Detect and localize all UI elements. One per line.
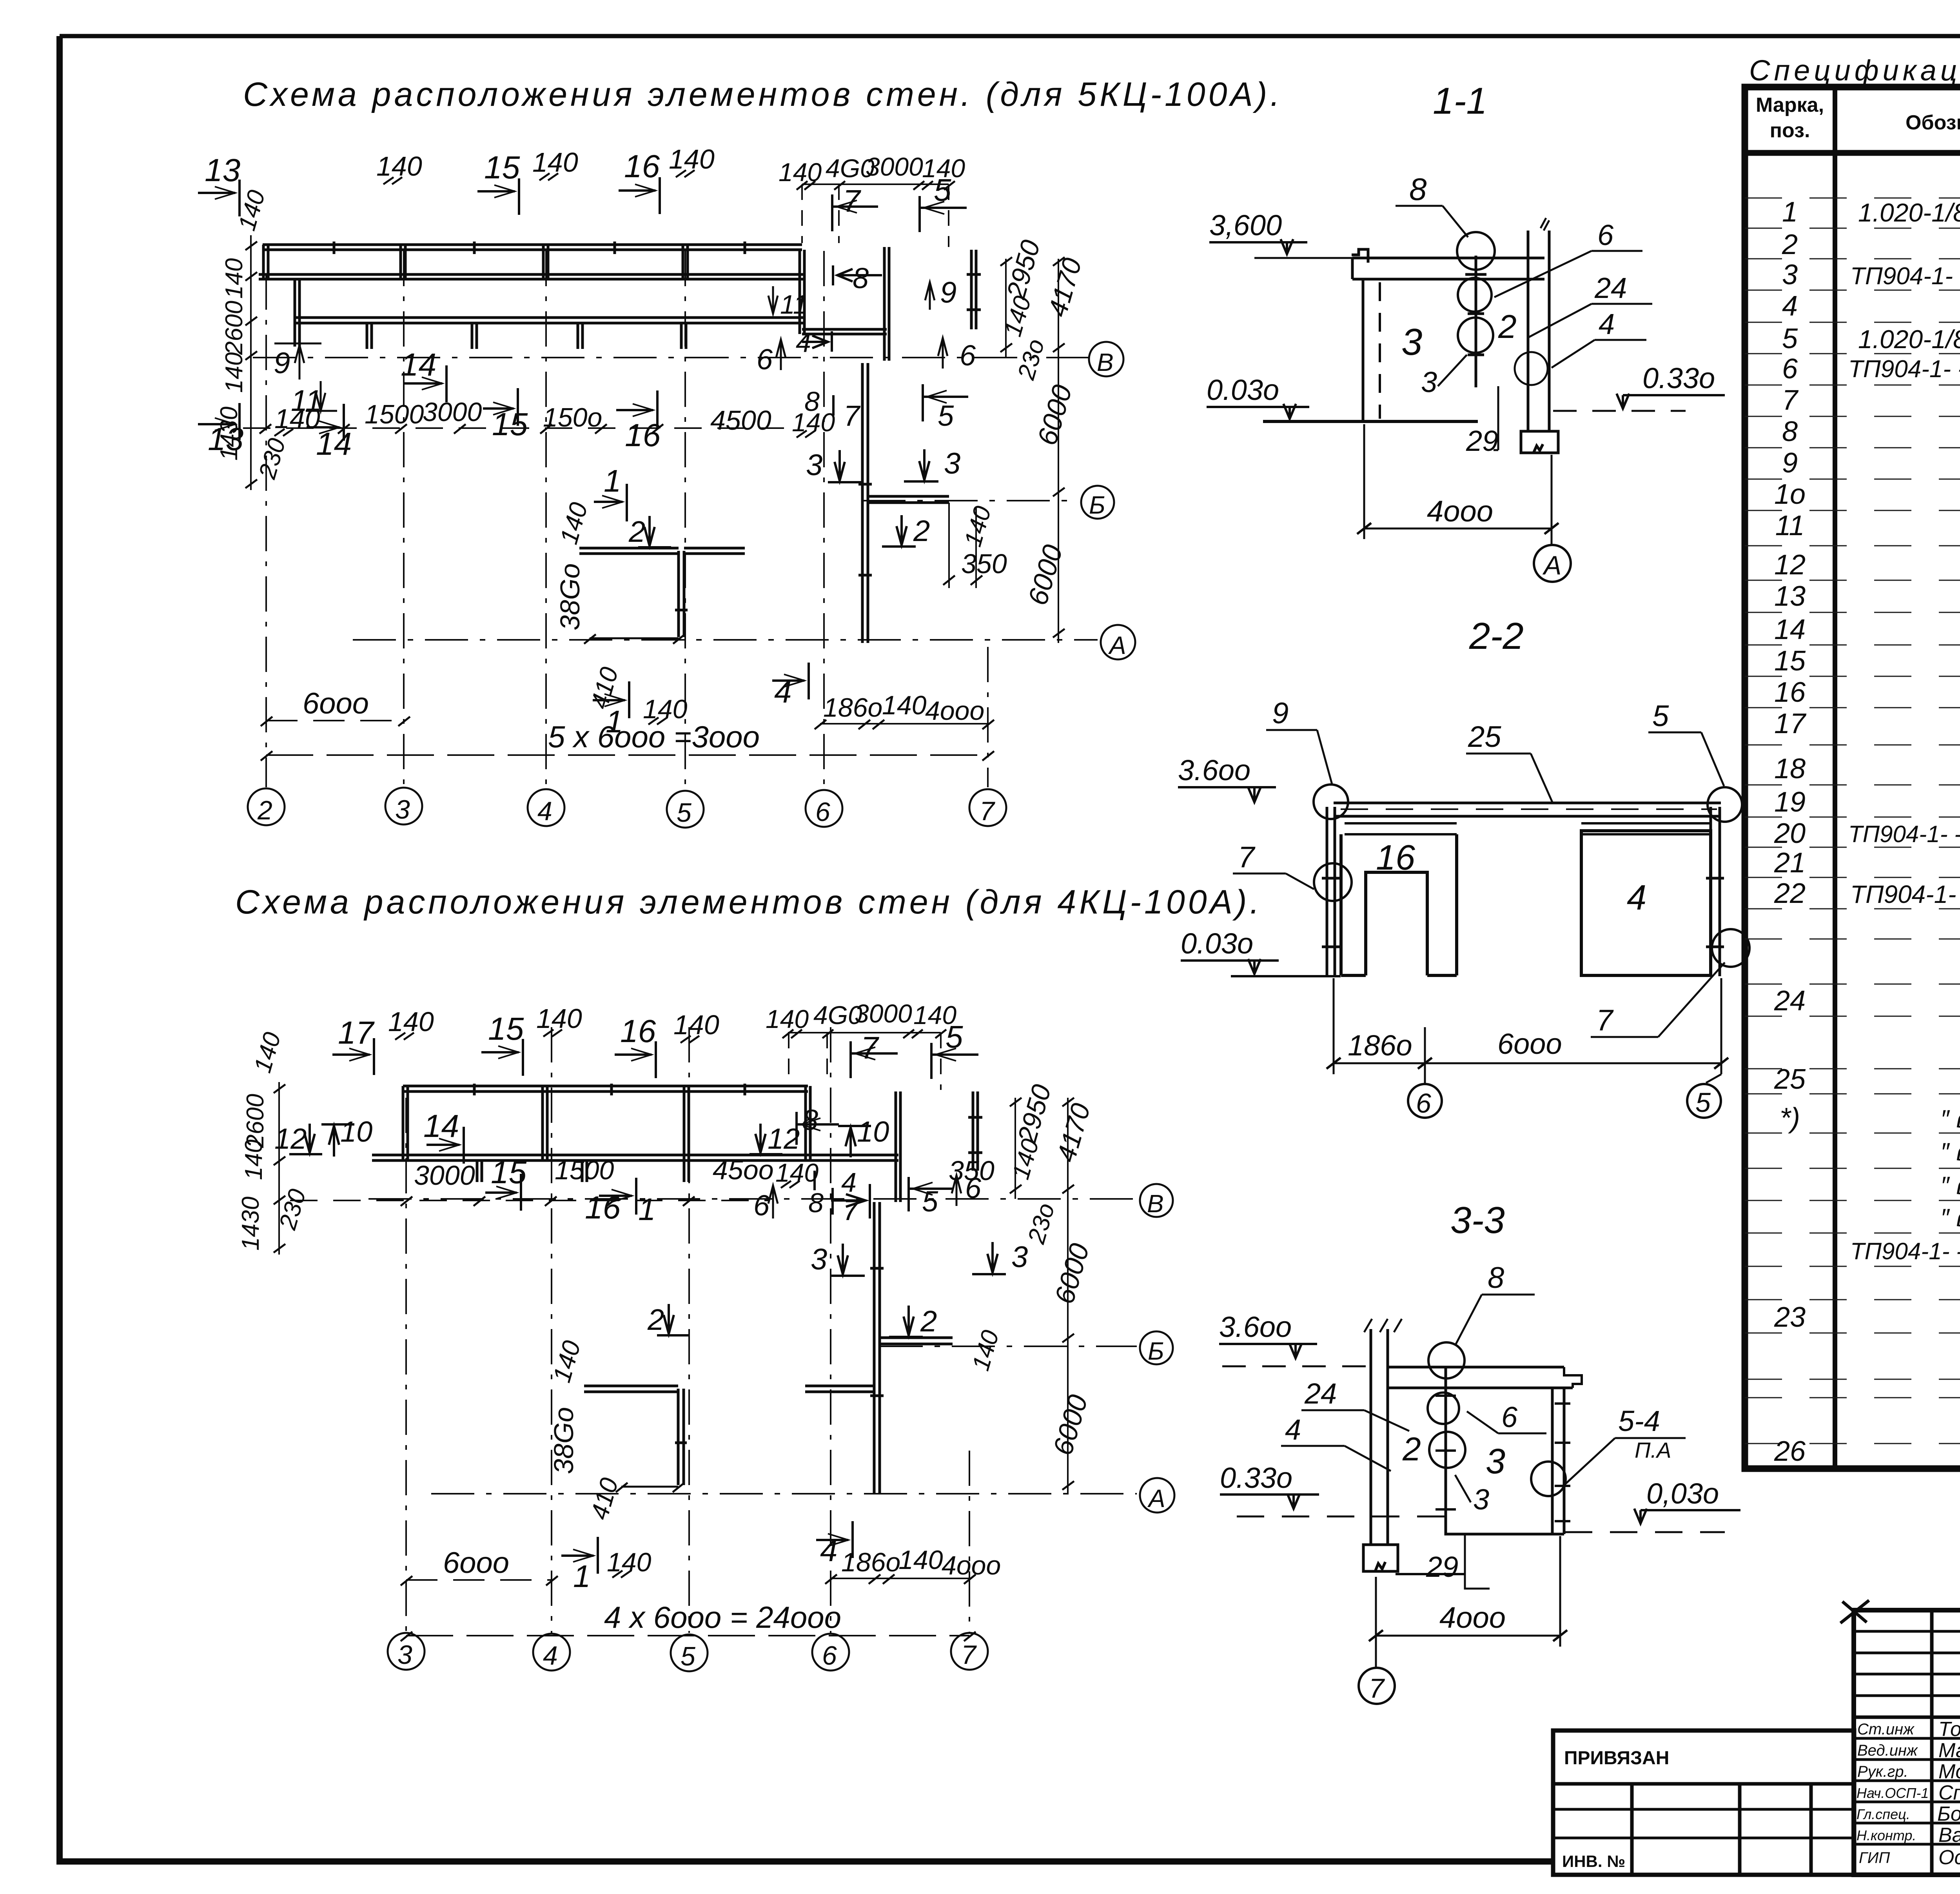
- svg-text:8: 8: [853, 262, 869, 294]
- svg-text:6: 6: [1416, 1088, 1431, 1119]
- svg-text:8: 8: [1488, 1261, 1504, 1295]
- mid dim row plan2: [290, 1155, 953, 1227]
- svg-text:9: 9: [1272, 697, 1289, 730]
- svg-text:2: 2: [257, 795, 272, 825]
- wall piece at axis Б: [868, 496, 949, 503]
- svg-text:6ооо: 6ооо: [443, 1546, 509, 1580]
- svg-text:17: 17: [338, 1015, 375, 1051]
- svg-text:10: 10: [340, 1115, 372, 1148]
- svg-text:ТП904-1- -КЖИ- 407: ТП904-1- -КЖИ- 407: [1848, 356, 1960, 383]
- svg-text:2: 2: [1782, 229, 1798, 260]
- svg-text:24: 24: [1774, 985, 1806, 1017]
- svg-text:29: 29: [1466, 425, 1498, 457]
- svg-text:3: 3: [1473, 1483, 1489, 1516]
- svg-text:ИНВ. №: ИНВ. №: [1562, 1852, 1625, 1870]
- svg-text:4500: 4500: [710, 405, 771, 436]
- svg-text:14: 14: [401, 347, 436, 383]
- svg-text:5: 5: [677, 798, 691, 828]
- foundation: [1521, 431, 1558, 453]
- svg-text:15: 15: [488, 1011, 524, 1047]
- svg-text:5 х 6ооо =3ооо: 5 х 6ооо =3ооо: [548, 719, 760, 754]
- grid circle 7 plan2: [951, 1633, 988, 1670]
- svg-text:1: 1: [638, 1192, 656, 1227]
- axis circle B: [1089, 342, 1123, 376]
- grid circle 7: [969, 789, 1006, 826]
- svg-text:3000: 3000: [855, 999, 912, 1028]
- svg-text:17: 17: [1774, 708, 1807, 739]
- svg-text:3: 3: [806, 449, 822, 482]
- svg-text:Нач.ОСП-1: Нач.ОСП-1: [1857, 1785, 1929, 1801]
- svg-text:2: 2: [920, 1305, 937, 1338]
- svg-text:7: 7: [961, 1640, 977, 1670]
- right dim verticals plan2: [1014, 1098, 1016, 1199]
- svg-text:10: 10: [857, 1115, 889, 1148]
- svg-text:7: 7: [1369, 1673, 1385, 1703]
- svg-text:4: 4: [537, 796, 552, 826]
- bubble circles: [1457, 232, 1495, 270]
- svg-text:4: 4: [1782, 291, 1798, 322]
- svg-text:Н.контр.: Н.контр.: [1857, 1827, 1916, 1843]
- svg-text:Ващенко: Ващенко: [1938, 1824, 1960, 1847]
- svg-text:3: 3: [1421, 366, 1437, 398]
- svg-text:140: 140: [898, 1545, 943, 1575]
- svg-text:5: 5: [1652, 699, 1669, 733]
- svg-text:16: 16: [1774, 677, 1806, 708]
- svg-text:8: 8: [804, 386, 820, 417]
- svg-text:ТП904-1- - КЖИ- 413: ТП904-1- - КЖИ- 413: [1850, 263, 1960, 290]
- svg-text:4ооо: 4ооо: [1439, 1601, 1506, 1634]
- lower wall with stubs: [295, 279, 804, 349]
- svg-text:″ вып. 6-1: ″ вып. 6-1: [1940, 1105, 1960, 1133]
- svg-text:45оо: 45оо: [713, 1155, 774, 1185]
- svg-text:350: 350: [949, 1155, 995, 1186]
- interior L-wall plan2: [584, 1386, 874, 1485]
- svg-text:5-4: 5-4: [1618, 1405, 1660, 1437]
- top wall band plan2: [372, 1084, 814, 1160]
- svg-text:3000: 3000: [414, 1160, 475, 1191]
- wall panel left: [1362, 279, 1365, 421]
- svg-text:140: 140: [240, 1140, 267, 1180]
- svg-text:П.А: П.А: [1635, 1438, 1671, 1462]
- svg-text:6: 6: [960, 339, 976, 372]
- svg-text:Боярченко: Боярченко: [1937, 1803, 1960, 1825]
- svg-text:Обозначение: Обозначение: [1906, 111, 1960, 134]
- column right: [1527, 231, 1530, 431]
- grid axis dash-dot verticals: [266, 251, 988, 787]
- svg-text:Б: Б: [1089, 491, 1105, 519]
- svg-text:Осташ_в:: Осташ_в:: [1938, 1846, 1960, 1869]
- roof slab: [1352, 258, 1544, 279]
- svg-text:″ вып. 7-1: ″ вып. 7-1: [1940, 1204, 1960, 1232]
- svg-text:2: 2: [1498, 308, 1517, 345]
- svg-text:3.6оо: 3.6оо: [1219, 1311, 1292, 1343]
- row separators dashed: [1745, 198, 1960, 1444]
- svg-text:140: 140: [388, 1006, 434, 1037]
- svg-text:24: 24: [1304, 1377, 1337, 1410]
- dim 410 line: [590, 637, 679, 639]
- right step walls plan2: [806, 1086, 900, 1202]
- svg-text:4: 4: [820, 1533, 838, 1568]
- svg-text:140: 140: [221, 352, 248, 393]
- grid circle 5 plan2: [671, 1634, 708, 1671]
- left dim vertical plan2: [278, 1082, 280, 1255]
- svg-text:12: 12: [274, 1122, 307, 1155]
- axis circle 7: [1359, 1668, 1395, 1704]
- svg-text:Моргунов: Моргунов: [1938, 1760, 1960, 1783]
- svg-text:8: 8: [1409, 172, 1427, 207]
- svg-text:140: 140: [882, 690, 927, 720]
- joint circles: [1428, 1342, 1465, 1378]
- svg-text:6ооо: 6ооо: [303, 687, 369, 720]
- svg-text:3: 3: [1782, 259, 1798, 291]
- svg-text:Вед.инж: Вед.инж: [1857, 1742, 1918, 1759]
- svg-text:Схема расположения элементов: Схема расположения элементов стен (для 4…: [235, 883, 1262, 921]
- svg-text:1430: 1430: [237, 1197, 264, 1251]
- svg-text:11: 11: [780, 290, 808, 320]
- svg-text:6ооо: 6ооо: [1497, 1028, 1562, 1060]
- svg-text:4ооо: 4ооо: [1427, 495, 1493, 528]
- svg-text:1-1: 1-1: [1433, 80, 1487, 122]
- svg-text:4ооо: 4ооо: [942, 1551, 1001, 1580]
- svg-text:29: 29: [1426, 1551, 1458, 1583]
- slab: [1388, 1367, 1573, 1388]
- grid circle 2: [248, 788, 285, 825]
- svg-text:″ вып. 6-1: ″ вып. 6-1: [1940, 1171, 1960, 1200]
- grid circle 6: [806, 790, 842, 827]
- svg-text:ГИП: ГИП: [1859, 1849, 1890, 1867]
- svg-text:19: 19: [1774, 786, 1806, 818]
- svg-text:1: 1: [1782, 196, 1798, 228]
- grid circle 3 plan2: [388, 1633, 425, 1670]
- svg-text:140: 140: [669, 144, 715, 174]
- label 11 down arrow right: [768, 286, 778, 314]
- svg-text:16: 16: [625, 418, 661, 453]
- svg-text:3: 3: [1401, 321, 1422, 363]
- element 4: [1581, 831, 1711, 975]
- axis circle Б: [1081, 486, 1114, 519]
- svg-text:0.03о: 0.03о: [1207, 374, 1279, 406]
- svg-text:4 х 6ооо = 24ооо: 4 х 6ооо = 24ооо: [604, 1600, 841, 1634]
- svg-text:12: 12: [768, 1122, 800, 1155]
- svg-text:11: 11: [1775, 510, 1805, 541]
- svg-text:20: 20: [1774, 818, 1806, 849]
- axis circle A: [1101, 625, 1135, 659]
- svg-text:15: 15: [492, 407, 528, 442]
- svg-text:ТП904-1- -КЖИ-412сБ: ТП904-1- -КЖИ-412сБ: [1848, 821, 1960, 847]
- privyazan block: [1553, 1731, 1854, 1875]
- svg-text:1500: 1500: [555, 1155, 614, 1185]
- svg-text:16: 16: [1376, 838, 1416, 877]
- panel element: [1446, 1367, 1564, 1534]
- table data text: [1774, 196, 1960, 1467]
- svg-text:18: 18: [1774, 753, 1806, 784]
- svg-text:8: 8: [808, 1188, 824, 1218]
- svg-text:350: 350: [961, 548, 1007, 579]
- svg-text:13: 13: [205, 153, 240, 188]
- svg-text:″ вып. 7-1: ″ вып. 7-1: [1940, 1138, 1960, 1166]
- top section flags plan2: [332, 1003, 719, 1078]
- svg-text:Спакьянц: Спакьянц: [1938, 1781, 1960, 1804]
- svg-text:А: А: [1542, 550, 1561, 580]
- left wall: [1327, 807, 1335, 976]
- svg-text:1o: 1o: [1774, 479, 1806, 510]
- svg-text:23: 23: [1774, 1302, 1806, 1333]
- grid circle 5: [667, 791, 704, 828]
- svg-text:3: 3: [395, 795, 410, 824]
- svg-text:24: 24: [1594, 272, 1627, 304]
- svg-text:3000: 3000: [866, 152, 923, 181]
- svg-text:6: 6: [1501, 1401, 1518, 1433]
- svg-text:5: 5: [1695, 1087, 1711, 1118]
- table outer border: [1745, 87, 1960, 1469]
- svg-text:140: 140: [532, 147, 578, 178]
- svg-text:Гл.спец.: Гл.спец.: [1857, 1806, 1910, 1822]
- svg-text:4: 4: [1599, 308, 1615, 340]
- svg-text:6: 6: [1782, 353, 1798, 385]
- svg-text:7: 7: [844, 400, 861, 432]
- svg-text:Толмачева: Толмачева: [1938, 1718, 1960, 1741]
- svg-text:140: 140: [766, 1004, 809, 1033]
- svg-text:1.020-1/83 вып. 4-1: 1.020-1/83 вып. 4-1: [1858, 198, 1960, 227]
- svg-text:22: 22: [1774, 878, 1806, 909]
- svg-text:4: 4: [841, 1167, 857, 1198]
- svg-text:186о: 186о: [1348, 1029, 1412, 1062]
- wall piece at axis Б plan2: [880, 1338, 953, 1344]
- svg-text:13: 13: [1774, 581, 1806, 612]
- svg-text:0.03о: 0.03о: [1181, 927, 1253, 960]
- svg-text:3-3: 3-3: [1450, 1199, 1505, 1241]
- signature table: [1840, 1600, 1960, 1875]
- svg-text:38Gо: 38Gо: [548, 1407, 579, 1474]
- svg-text:ПРИВЯЗАН: ПРИВЯЗАН: [1564, 1748, 1669, 1769]
- svg-text:7: 7: [861, 1030, 879, 1065]
- svg-text:7: 7: [1782, 385, 1799, 416]
- right end wall plan2: [968, 1091, 982, 1171]
- axis A dash-dot plan2: [431, 1493, 1137, 1494]
- svg-text:3: 3: [944, 447, 960, 480]
- svg-text:9: 9: [940, 276, 956, 309]
- top right dims plan2: [766, 999, 956, 1090]
- svg-text:3.6оо: 3.6оо: [1178, 754, 1250, 786]
- grid circle 3: [385, 788, 422, 824]
- svg-text:140: 140: [376, 151, 422, 182]
- top right dims 140 460 3000 140: [779, 152, 965, 247]
- axis Б dash-dot: [862, 500, 1079, 501]
- svg-text:Рук.гр.: Рук.гр.: [1857, 1763, 1908, 1780]
- interior L-wall left: [579, 548, 745, 637]
- svg-text:*): *): [1780, 1102, 1800, 1134]
- top wall band: [259, 242, 804, 279]
- svg-text:25: 25: [1468, 720, 1501, 754]
- svg-text:поз.: поз.: [1770, 119, 1810, 142]
- svg-text:4: 4: [1627, 878, 1646, 917]
- floor line: [1263, 420, 1478, 423]
- svg-text:В: В: [1147, 1189, 1164, 1218]
- svg-text:186о: 186о: [841, 1547, 900, 1577]
- svg-text:Марка,: Марка,: [1756, 94, 1824, 116]
- grid circle 4 plan2: [533, 1634, 570, 1671]
- svg-text:0.33о: 0.33о: [1220, 1462, 1292, 1494]
- axis A dash-dot: [353, 639, 1098, 641]
- svg-text:2: 2: [628, 515, 645, 548]
- svg-text:140: 140: [673, 1010, 719, 1040]
- svg-text:2-2: 2-2: [1469, 615, 1524, 657]
- axis B dash-dot: [253, 357, 1088, 358]
- stubs below wall plan2: [477, 1160, 689, 1182]
- svg-text:14: 14: [1774, 614, 1806, 645]
- ground line: [1396, 1573, 1465, 1575]
- svg-text:4: 4: [543, 1641, 558, 1671]
- svg-text:3000: 3000: [423, 397, 482, 427]
- left column: [1371, 1329, 1388, 1545]
- svg-text:12: 12: [1774, 549, 1806, 581]
- top section flags: [198, 144, 715, 216]
- svg-text:0,03о: 0,03о: [1646, 1477, 1719, 1510]
- svg-text:В: В: [1097, 348, 1114, 376]
- right end wall plan1: [967, 250, 981, 329]
- svg-text:15: 15: [484, 150, 520, 185]
- svg-text:Схема расположения элементов: Схема расположения элементов стен. (для …: [243, 76, 1283, 113]
- svg-text:1500: 1500: [365, 400, 424, 429]
- svg-text:1.020-1/83 вып 4.-1: 1.020-1/83 вып 4.-1: [1858, 325, 1960, 354]
- table column lines: [1833, 87, 1837, 1469]
- svg-text:2: 2: [1402, 1431, 1421, 1467]
- svg-text:Б: Б: [1148, 1337, 1164, 1365]
- bottom dim row: [198, 384, 968, 462]
- svg-text:6: 6: [1597, 219, 1614, 251]
- svg-text:140: 140: [274, 403, 320, 434]
- svg-text:140: 140: [221, 258, 248, 299]
- axis Б dash-dot plan2: [880, 1346, 1137, 1347]
- wall ticks: [1322, 878, 1724, 947]
- svg-text:16: 16: [624, 149, 660, 184]
- svg-text:1: 1: [604, 463, 621, 498]
- svg-text:3: 3: [1011, 1240, 1028, 1274]
- svg-text:ТП904-1- -КЖИ - МС5: ТП904-1- -КЖИ - МС5: [1850, 1238, 1960, 1264]
- svg-text:14: 14: [316, 426, 352, 462]
- svg-text:9: 9: [274, 347, 290, 380]
- svg-text:26: 26: [1774, 1436, 1806, 1467]
- svg-text:А: А: [1108, 631, 1126, 659]
- grid axis dash-dot verticals plan2: [406, 1027, 969, 1633]
- tall interior wall plan2: [870, 1202, 884, 1494]
- axis B dash-dot plan2: [368, 1198, 1137, 1200]
- svg-text:2: 2: [913, 514, 930, 548]
- axis circle A plan2: [1140, 1478, 1174, 1513]
- svg-text:1: 1: [573, 1559, 591, 1594]
- svg-text:6: 6: [822, 1641, 837, 1671]
- svg-text:3: 3: [397, 1640, 412, 1670]
- svg-text:А: А: [1147, 1484, 1165, 1513]
- left dim vertical: [250, 235, 252, 490]
- under-slab beams: [1345, 823, 1457, 834]
- svg-text:9: 9: [1782, 447, 1798, 479]
- right step walls: [800, 247, 889, 361]
- svg-text:186о: 186о: [823, 693, 882, 723]
- svg-text:Спецификация к схеме располо: Спецификация к схеме расположения элемен…: [1749, 54, 1960, 87]
- svg-text:3,600: 3,600: [1209, 209, 1282, 242]
- svg-text:5: 5: [1782, 323, 1798, 354]
- svg-text:3: 3: [811, 1243, 827, 1276]
- svg-text:5: 5: [922, 1185, 938, 1218]
- svg-text:8: 8: [1782, 416, 1798, 447]
- svg-text:0.33о: 0.33о: [1642, 362, 1715, 394]
- dim 410 line plan2: [621, 1486, 678, 1488]
- right wall: [1711, 807, 1720, 976]
- svg-text:Макароза: Макароза: [1938, 1739, 1960, 1762]
- svg-text:7: 7: [980, 796, 995, 826]
- svg-text:38Gо: 38Gо: [555, 563, 585, 630]
- svg-text:6: 6: [757, 343, 773, 376]
- axis circle B plan2: [1140, 1184, 1173, 1217]
- tall interior wall at grid 6+: [858, 363, 872, 643]
- joint axis with bubbles: [1475, 256, 1477, 387]
- svg-text:ТП904-1- - КЖИ- 415: ТП904-1- - КЖИ- 415: [1850, 880, 1960, 908]
- svg-text:5: 5: [938, 400, 954, 432]
- axis circle A: [1534, 545, 1571, 582]
- svg-text:140: 140: [536, 1003, 582, 1034]
- svg-text:7: 7: [843, 1194, 860, 1226]
- bottom axis circles: [1408, 1084, 1442, 1118]
- grid circle 4: [528, 789, 564, 826]
- svg-text:6: 6: [815, 797, 830, 827]
- svg-text:15: 15: [1774, 645, 1806, 677]
- svg-text:21: 21: [1774, 847, 1806, 879]
- detail circles: [1314, 784, 1348, 819]
- svg-text:4ооо: 4ооо: [925, 696, 984, 726]
- svg-text:7: 7: [843, 183, 861, 218]
- right dim verticals: [1005, 259, 1007, 358]
- svg-text:25: 25: [1774, 1064, 1806, 1095]
- svg-text:2: 2: [647, 1303, 664, 1337]
- foundation: [1363, 1545, 1398, 1571]
- element 16 with door notch: [1341, 834, 1457, 975]
- svg-text:2600: 2600: [221, 301, 248, 355]
- svg-text:16: 16: [620, 1013, 656, 1049]
- axis circle Б plan2: [1140, 1331, 1173, 1364]
- svg-text:3: 3: [1486, 1442, 1505, 1481]
- svg-text:Ст.инж: Ст.инж: [1857, 1721, 1915, 1738]
- dashed dim line bottom row: [243, 427, 784, 429]
- svg-text:4: 4: [1285, 1413, 1301, 1446]
- svg-text:6: 6: [753, 1189, 770, 1222]
- svg-text:7: 7: [1238, 841, 1256, 874]
- svg-text:5: 5: [681, 1642, 695, 1671]
- svg-text:7: 7: [1596, 1004, 1614, 1037]
- corner cross mark: [1840, 1600, 1869, 1623]
- roof slab: [1334, 802, 1721, 804]
- grid circle 6 plan2: [812, 1634, 849, 1671]
